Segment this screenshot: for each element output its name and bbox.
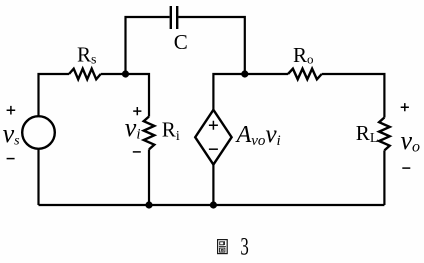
plus sign inside diamond (209, 121, 218, 130)
wire node B right to Ro (245, 73, 288, 75)
wire source vs bottom to rail (37, 149, 39, 205)
wire node B left to dependent source top (213, 74, 244, 110)
minus sign of vs (7, 158, 15, 160)
resistor RL (379, 118, 390, 151)
wire Rs to node A then down to Ri (101, 74, 149, 117)
resistor Ri (144, 117, 155, 150)
svg-text:3: 3 (240, 234, 248, 261)
svg-text:vo: vo (401, 126, 421, 156)
dependent source Avo*vi diamond (195, 110, 231, 165)
svg-text:vi: vi (125, 113, 141, 143)
wire RL to bottom rail (383, 150, 385, 205)
bottom junction dot source (210, 201, 217, 208)
svg-text:Rs: Rs (77, 42, 96, 67)
svg-text:C: C (174, 30, 188, 54)
source vs circle (22, 116, 55, 149)
capacitor C plates (171, 6, 177, 29)
bottom junction dot Ri (145, 201, 152, 208)
plus sign of vo (401, 103, 409, 111)
wire capacitor to node B (178, 17, 245, 74)
node B junction dot (241, 70, 248, 77)
wire node A up to capacitor (126, 17, 170, 74)
svg-text:Ro: Ro (293, 43, 314, 67)
node A junction dot (122, 70, 129, 77)
svg-text:vs: vs (3, 119, 21, 149)
resistor Rs (69, 69, 101, 80)
svg-text:Ri: Ri (162, 118, 180, 144)
svg-text:RL: RL (356, 121, 379, 146)
svg-text:Avovi: Avovi (235, 121, 281, 149)
wire dependent source bottom to rail (212, 165, 214, 205)
wire Ri to bottom rail (148, 149, 150, 205)
caption figure glyph 圖 (218, 240, 228, 254)
minus sign inside diamond (209, 148, 218, 150)
minus sign of vi (133, 151, 141, 153)
wire top-left from source up to Rs (39, 74, 70, 117)
minus sign of vo (402, 167, 410, 169)
plus sign of vi (133, 107, 141, 115)
plus sign of vs (7, 106, 16, 115)
wire bottom rail (39, 204, 385, 206)
wire Ro to right rail down to RL (322, 74, 385, 118)
resistor Ro (288, 69, 322, 80)
